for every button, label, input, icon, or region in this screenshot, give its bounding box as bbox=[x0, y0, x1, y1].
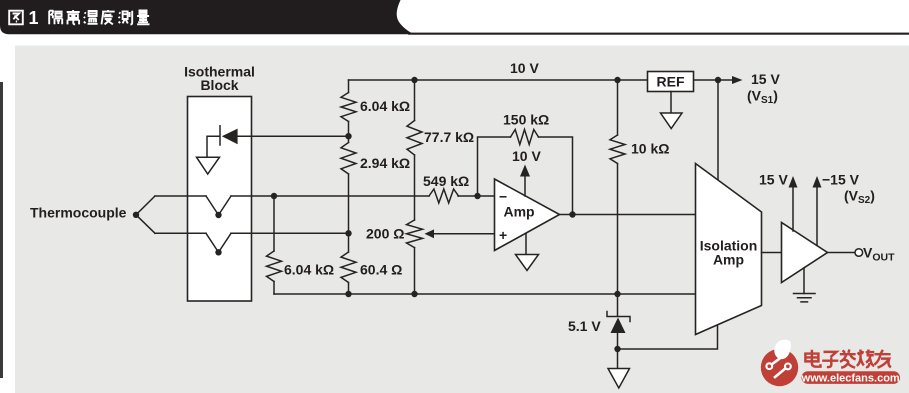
resistor R 2.94k bbox=[341, 143, 356, 175]
wire: isolation amp to output buffer bbox=[762, 252, 782, 254]
wire: op-amp output bbox=[560, 214, 696, 216]
resistor R 549k bbox=[429, 189, 459, 203]
glyph 量 bbox=[137, 11, 149, 25]
glyph 度 bbox=[102, 10, 115, 24]
left page-edge artifact bar bbox=[0, 82, 3, 378]
svg-text:6.04 kΩ: 6.04 kΩ bbox=[360, 98, 410, 114]
ground below REF (open triangle) bbox=[661, 113, 683, 129]
watermark logo circle bbox=[761, 340, 900, 387]
glyph 隔 bbox=[49, 11, 62, 25]
wire: +10V top rail bbox=[349, 79, 736, 81]
svg-text:10 V: 10 V bbox=[512, 148, 541, 164]
banner title text: 图 1 隔离温度测量 (drawn glyphs) bbox=[9, 8, 149, 28]
wire: buffer output bbox=[828, 252, 856, 254]
diode D1 cold junction compensation bbox=[222, 129, 238, 145]
resistor R 60.4 bbox=[341, 252, 356, 283]
watermark circuit trace lower bbox=[774, 368, 786, 378]
svg-text:6.04 kΩ: 6.04 kΩ bbox=[284, 262, 334, 278]
node: lower lead to 60.4 column bbox=[345, 230, 351, 236]
watermark banner www.elecfans.com bbox=[802, 371, 901, 384]
arrow to 15V VS1 supply bbox=[732, 76, 743, 84]
svg-text:Amp: Amp bbox=[504, 204, 535, 220]
potentiometer R 200 ohm bbox=[407, 220, 423, 248]
wire: diode tap to cold-junction diode bbox=[238, 135, 349, 137]
svg-text:10 kΩ: 10 kΩ bbox=[631, 141, 669, 157]
svg-text:−: − bbox=[499, 189, 507, 205]
resistor R 77.7k bbox=[407, 121, 422, 156]
output buffer amp U4 bbox=[782, 223, 828, 283]
svg-text:5.1 V: 5.1 V bbox=[568, 318, 601, 334]
resistor R 150k feedback bbox=[511, 130, 539, 145]
wire: upper thermocouple lead bbox=[155, 195, 495, 197]
svg-text:Amp: Amp bbox=[713, 252, 744, 268]
svg-text:77.7 kΩ: 77.7 kΩ bbox=[424, 129, 474, 145]
REF box U2 bbox=[648, 72, 694, 92]
svg-text:2.94 kΩ: 2.94 kΩ bbox=[360, 155, 410, 171]
node: diode tap on column1 bbox=[345, 133, 351, 139]
svg-text:+: + bbox=[499, 227, 507, 243]
wire: 6.04k bottom column bbox=[273, 196, 275, 294]
isothermal block box bbox=[188, 97, 252, 302]
glyph 子 bbox=[822, 352, 838, 367]
svg-text:1: 1 bbox=[29, 8, 39, 28]
REF ground stem bbox=[670, 92, 672, 114]
buffer -15V supply arrow bbox=[816, 187, 818, 246]
svg-text:15 V: 15 V bbox=[759, 172, 788, 188]
wire: wiper to op-amp + input bbox=[433, 233, 495, 235]
zener diode 5.1V bbox=[617, 294, 619, 349]
wire: feedback loop bbox=[478, 137, 573, 215]
node: top rail to 10k column bbox=[614, 77, 620, 83]
glyph 友 bbox=[874, 350, 890, 368]
node: 200 ohm column to bottom rail bbox=[411, 291, 417, 297]
svg-text:549 kΩ: 549 kΩ bbox=[423, 173, 469, 189]
wire: zener node to isolation amp bottom bbox=[618, 326, 718, 350]
node: 60.4 column to bottom rail bbox=[345, 291, 351, 297]
svg-text:200 Ω: 200 Ω bbox=[366, 226, 404, 242]
svg-text:15 V: 15 V bbox=[751, 71, 780, 87]
glyph 烧 bbox=[857, 350, 874, 368]
ground below zener (open triangle) bbox=[608, 369, 630, 389]
glyph 发 bbox=[840, 350, 856, 368]
wire: supply into isolation amp bbox=[717, 80, 719, 180]
lower thermocouple junction bbox=[206, 233, 231, 252]
output terminal circle bbox=[855, 249, 863, 257]
node: zener anode junction bbox=[614, 346, 620, 352]
thermocouple apex and leads bbox=[133, 212, 139, 218]
glyph 温 bbox=[84, 11, 98, 24]
node: upper lead to 6.04k bottom column bbox=[271, 193, 277, 199]
svg-text:www.elecfans.com: www.elecfans.com bbox=[801, 373, 900, 385]
svg-text:60.4 Ω: 60.4 Ω bbox=[360, 262, 402, 278]
svg-text:−15 V: −15 V bbox=[822, 172, 860, 188]
wire: column2 verticals bbox=[414, 80, 416, 294]
resistor R 6.04k top bbox=[341, 93, 356, 122]
banner underline bbox=[408, 33, 909, 35]
wiper arrow of 200 ohm pot bbox=[425, 229, 435, 238]
watermark flame bbox=[774, 340, 791, 359]
svg-text:150 kΩ: 150 kΩ bbox=[503, 112, 549, 128]
title banner bbox=[0, 0, 414, 34]
resistor R 6.04k bottom bbox=[267, 251, 282, 282]
upper thermocouple junction bbox=[206, 196, 231, 215]
svg-text:REF: REF bbox=[657, 74, 685, 90]
resistor R 10k bbox=[610, 135, 625, 164]
svg-text:Thermocouple: Thermocouple bbox=[30, 205, 127, 221]
node: feedback to output bbox=[569, 211, 575, 217]
node: top rail to 77.7k column bbox=[411, 77, 417, 83]
glyph 测 bbox=[119, 11, 133, 25]
buffer +15V supply arrow bbox=[792, 187, 794, 231]
watermark text 电子发烧友 (drawn glyphs) bbox=[805, 350, 890, 368]
zener ground stem bbox=[617, 349, 619, 369]
wire: column3 10k bbox=[617, 80, 619, 294]
node: top rail to isolation amp supply bbox=[715, 77, 721, 83]
ground below op-amp (open triangle) bbox=[516, 255, 539, 271]
glyph 电 bbox=[805, 350, 820, 367]
ground below diode (open triangle) bbox=[197, 157, 220, 174]
glyph 图 bbox=[9, 11, 23, 25]
isolation amp U3 bbox=[696, 164, 762, 335]
wire: column1 verticals bbox=[348, 80, 350, 294]
ground IEC bars below buffer bbox=[794, 294, 816, 302]
watermark circuit trace upper bbox=[772, 352, 789, 364]
node: zener column to bottom rail bbox=[614, 291, 620, 297]
op-amp U1 bbox=[495, 179, 560, 251]
buffer ground stem bbox=[803, 268, 805, 294]
op-amp ground stem bbox=[525, 234, 527, 255]
wire: bottom common rail bbox=[274, 293, 696, 295]
svg-text:10 V: 10 V bbox=[510, 60, 539, 76]
node: feedback tap at op-amp inverting input bbox=[474, 193, 480, 199]
svg-text:Block: Block bbox=[200, 77, 238, 93]
op-amp 10V supply arrow bbox=[524, 176, 526, 196]
wire: lower thermocouple lead bbox=[155, 232, 349, 234]
glyph 离 bbox=[67, 10, 80, 24]
